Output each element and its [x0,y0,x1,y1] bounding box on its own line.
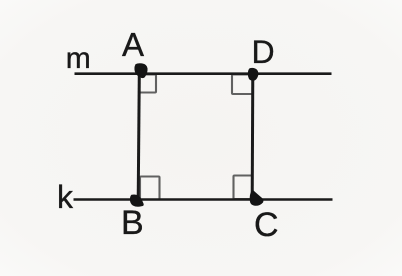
svg-text:C: C [254,206,279,244]
segment AB [138,73,139,200]
right-angle marker at C [234,176,253,200]
point D [248,68,258,81]
svg-text:k: k [57,179,74,215]
point A [134,63,147,78]
right-angle marker at B [140,177,160,200]
line m [75,72,332,75]
svg-text:D: D [252,34,275,70]
svg-text:m: m [66,42,91,75]
segment DC [251,74,255,201]
svg-text:A: A [122,26,144,63]
line k [74,198,333,201]
point B [130,194,144,206]
point C [250,191,264,206]
svg-text:B: B [121,204,144,242]
right-angle marker at A [140,75,157,93]
right-angle marker at D [232,75,253,95]
